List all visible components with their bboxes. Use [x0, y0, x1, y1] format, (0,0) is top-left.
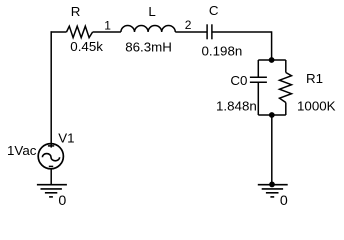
svg-text:0.198n: 0.198n [202, 44, 243, 59]
svg-text:1000K: 1000K [297, 99, 336, 114]
svg-text:86.3mH: 86.3mH [125, 40, 172, 55]
wire node 2 segment [175, 31, 207, 33]
ground left [37, 185, 67, 197]
V1 plus mark [48, 145, 54, 147]
svg-text:0.45k: 0.45k [70, 39, 103, 54]
wire V1 bottom lead [50, 169, 52, 185]
capacitor C0 plates [250, 76, 267, 78]
svg-text:V1: V1 [58, 131, 74, 146]
svg-text:R1: R1 [306, 71, 323, 86]
svg-text:L: L [148, 4, 155, 19]
wire right vertical down to junction [271, 31, 273, 60]
wire bottom bar of parallel section [258, 114, 286, 116]
node junction dot bottom [269, 112, 275, 118]
svg-text:0: 0 [58, 193, 66, 209]
svg-text:1Vac: 1Vac [7, 143, 37, 158]
resistor R [67, 26, 93, 37]
wire left vertical rail [50, 31, 52, 147]
wire from C to right corner [212, 31, 272, 33]
wire top segment to resistor [51, 31, 67, 33]
node junction dot at right ground [269, 182, 275, 188]
resistor R1 [280, 73, 292, 103]
svg-text:C0: C0 [230, 73, 247, 88]
svg-text:R: R [71, 4, 81, 19]
wire C0 upper lead [257, 60, 259, 77]
wire node 1 segment [93, 31, 121, 33]
capacitor C plates [206, 24, 208, 39]
svg-text:1: 1 [104, 19, 111, 33]
node junction dot top [269, 57, 275, 63]
svg-text:2: 2 [185, 18, 192, 32]
svg-text:1.848n: 1.848n [216, 98, 257, 113]
wire C0 lower lead [257, 82, 259, 115]
svg-text:0: 0 [280, 193, 288, 209]
ground right [258, 185, 288, 197]
op V1 source circle [38, 144, 63, 169]
V1 minus mark [49, 165, 53, 167]
svg-text:C: C [209, 3, 219, 18]
wire R1 lower lead [285, 103, 287, 116]
wire down to right ground [271, 115, 273, 185]
wire top bar of parallel section [258, 59, 286, 61]
inductor L [121, 25, 175, 32]
wire R1 upper lead [285, 60, 287, 73]
V1 sine wave [42, 154, 59, 161]
